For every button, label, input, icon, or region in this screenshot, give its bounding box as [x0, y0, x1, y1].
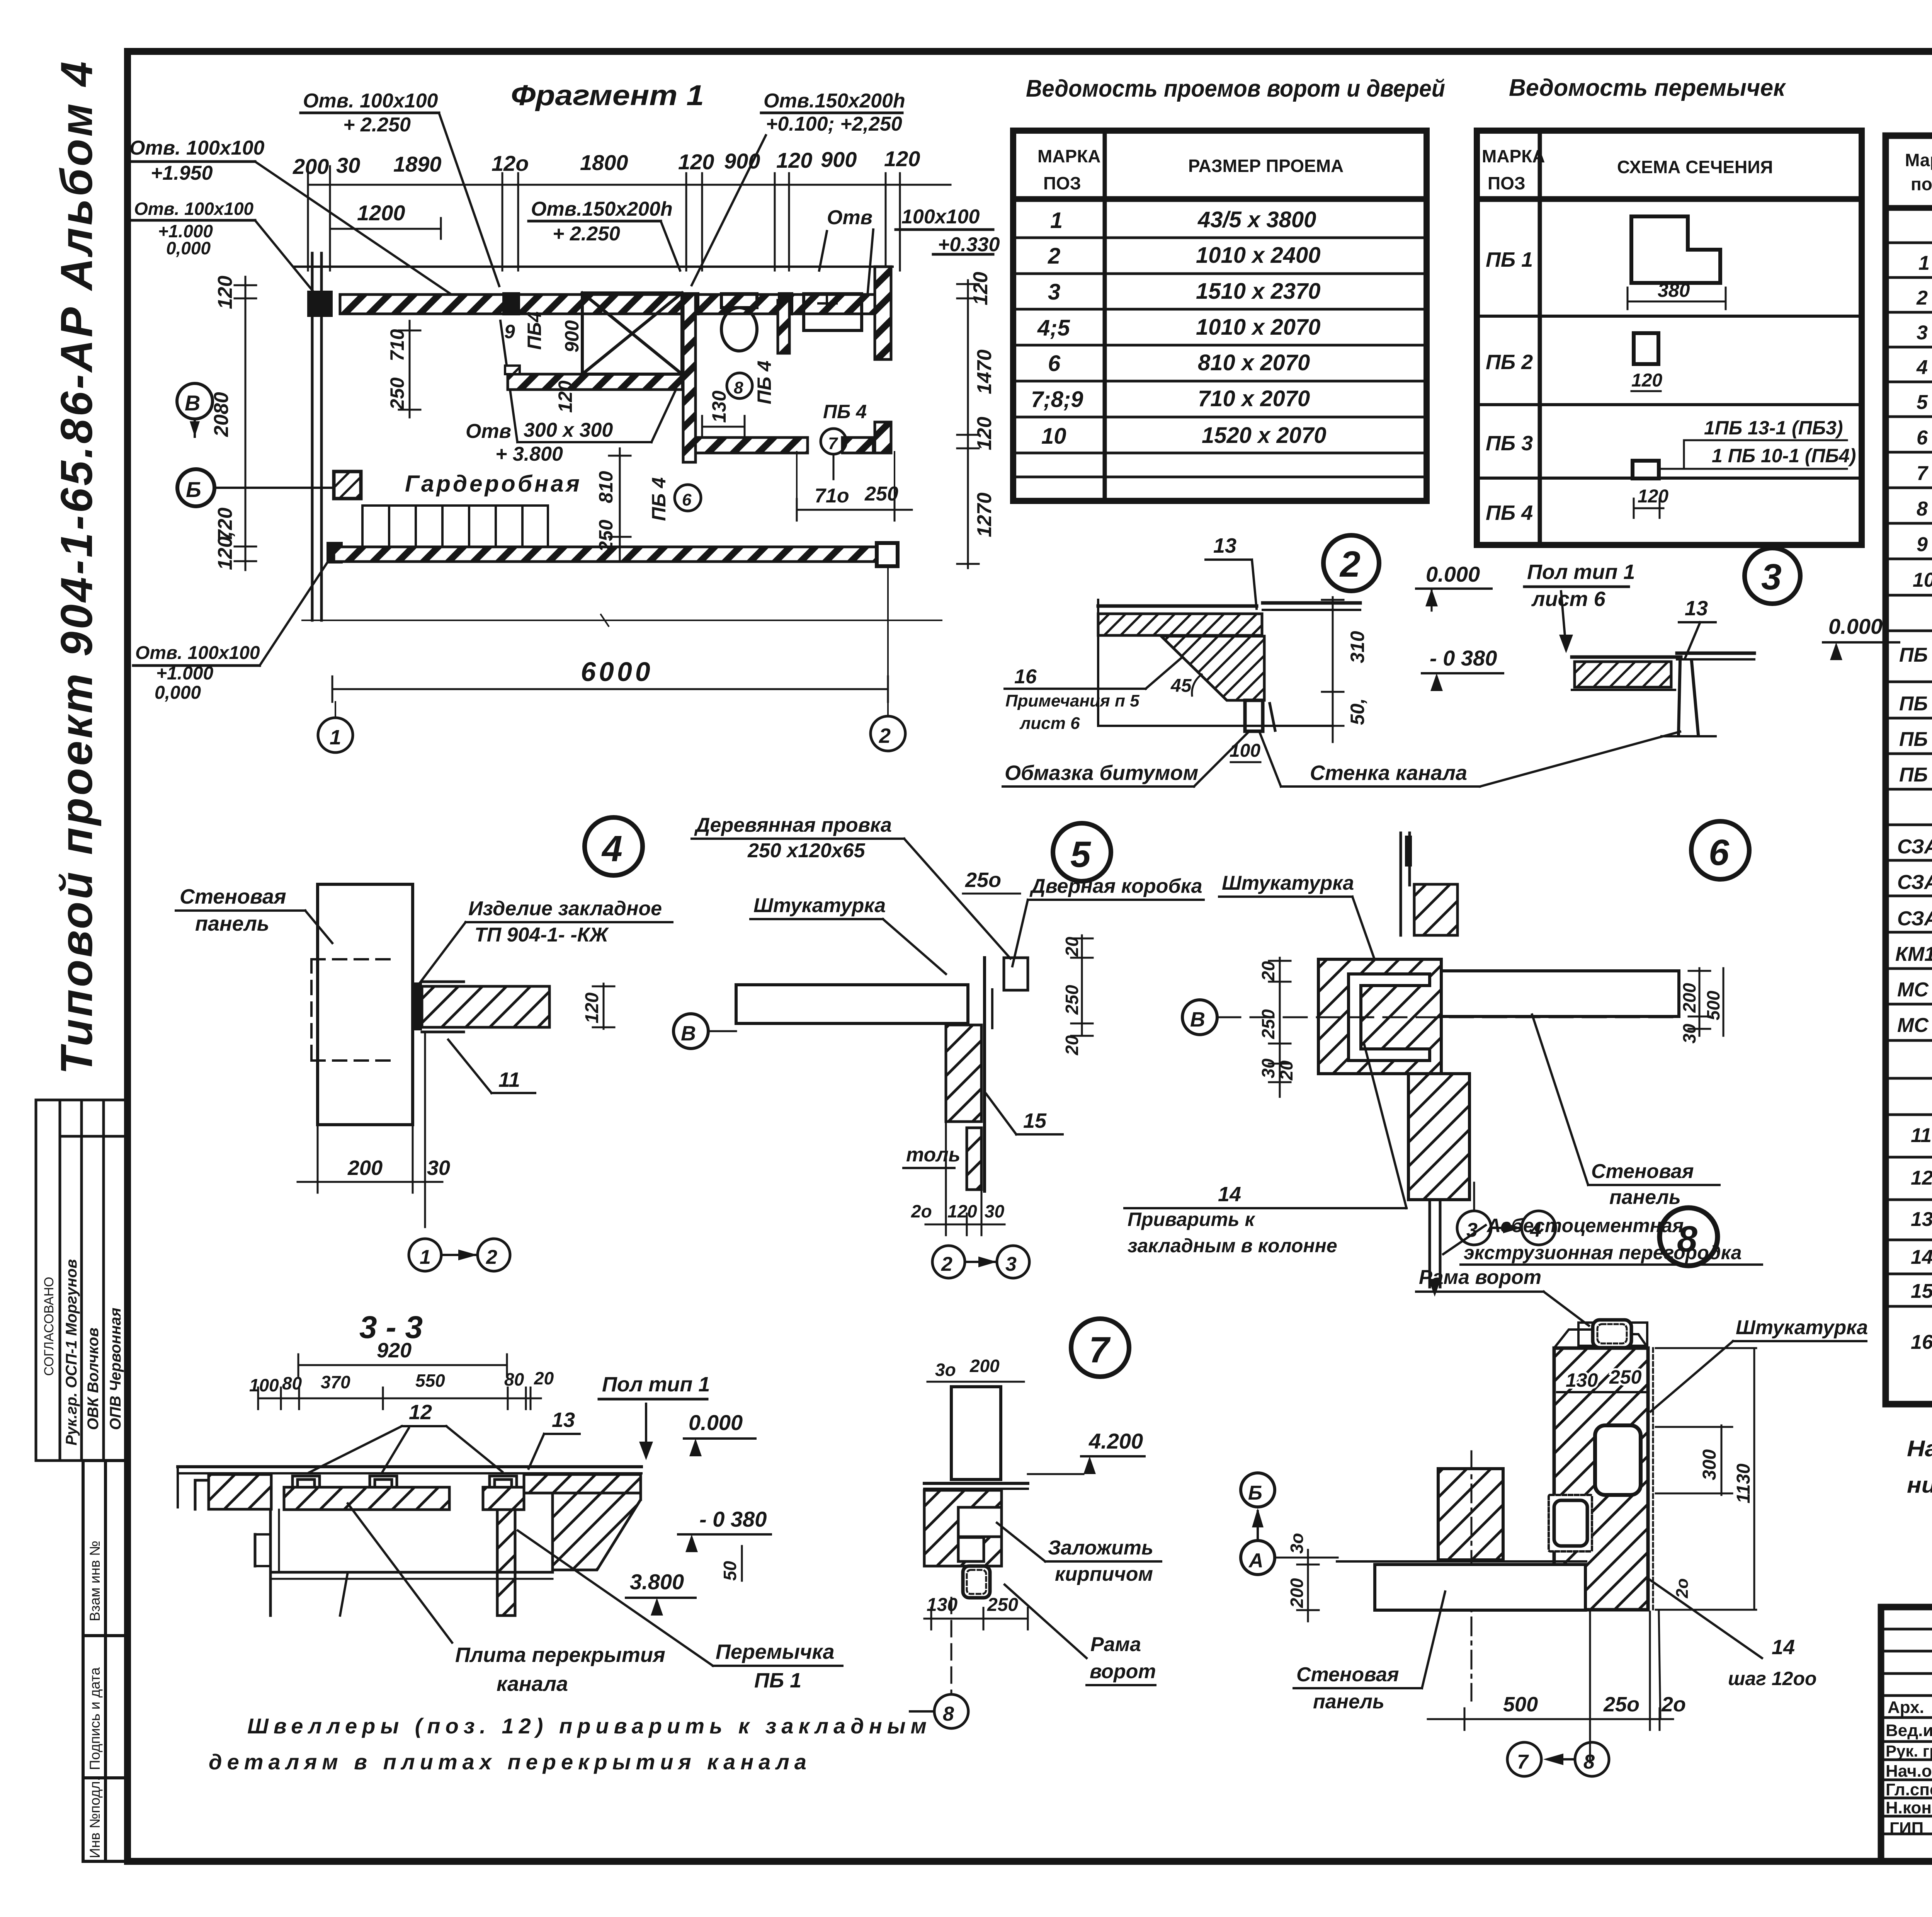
svg-text:20: 20 — [1276, 1060, 1296, 1081]
svg-text:100: 100 — [1230, 741, 1260, 761]
svg-text:Изделие закладное: Изделие закладное — [468, 897, 662, 920]
embedded bar — [414, 982, 422, 1030]
svg-text:43/5 x 3800: 43/5 x 3800 — [1197, 207, 1316, 232]
svg-text:Подпись и дата: Подпись и дата — [87, 1667, 103, 1770]
svg-text:120: 120 — [776, 148, 812, 172]
svg-text:Швеллеры (поз. 12) приварить: Швеллеры (поз. 12) приварить к закладным — [247, 1714, 932, 1738]
svg-text:толь: толь — [906, 1144, 961, 1166]
svg-text:200: 200 — [969, 1356, 1000, 1376]
toilet — [721, 294, 757, 308]
svg-text:1010 x 2400: 1010 x 2400 — [1196, 243, 1321, 268]
svg-text:920: 920 — [377, 1339, 412, 1362]
svg-text:Гл.спец.Кияшко: Гл.спец.Кияшко — [1886, 1780, 1932, 1799]
svg-text:1: 1 — [1918, 252, 1930, 274]
svg-text:6: 6 — [682, 490, 692, 509]
svg-text:1: 1 — [420, 1246, 431, 1268]
svg-text:9: 9 — [1917, 533, 1928, 556]
labels ПБ4 etc — [504, 312, 867, 521]
svg-text:Арх.: Арх. — [1888, 1698, 1924, 1717]
svg-text:130: 130 — [927, 1595, 957, 1615]
svg-text:Отв. 100x100: Отв. 100x100 — [129, 137, 265, 159]
axis 7<-8 — [1507, 1742, 1541, 1776]
svg-text:Инв №подл.: Инв №подл. — [87, 1777, 103, 1858]
top dimension chain — [308, 166, 951, 271]
svg-text:Типовой проект 904-1-65.86-А: Типовой проект 904-1-65.86-АР Альбом 4 — [51, 59, 102, 1074]
svg-text:Дверная коробка: Дверная коробка — [1029, 875, 1202, 897]
svg-text:+1.950: +1.950 — [151, 162, 213, 184]
svg-text:Отв.150x200h: Отв.150x200h — [531, 198, 673, 220]
svg-text:900: 900 — [724, 149, 760, 173]
svg-text:Штукатурка: Штукатурка — [1222, 872, 1354, 894]
left dims — [1269, 958, 1291, 1097]
row lines — [1886, 243, 1932, 1306]
svg-text:50,: 50, — [1347, 698, 1368, 725]
svg-text:Б: Б — [186, 477, 201, 502]
dims right of detail5 — [1071, 935, 1093, 1036]
В axis — [1182, 1000, 1217, 1035]
svg-text:6: 6 — [1709, 832, 1730, 873]
svg-text:ОВК Волчков: ОВК Волчков — [85, 1328, 102, 1430]
svg-text:120: 120 — [582, 993, 602, 1023]
svg-text:Марка,: Марка, — [1905, 150, 1932, 170]
svg-text:2o: 2o — [1661, 1693, 1686, 1716]
svg-text:250: 250 — [386, 377, 408, 410]
svg-text:Стеновая: Стеновая — [1591, 1160, 1694, 1183]
channel (швеллер) white — [1349, 974, 1430, 1061]
svg-text:+ 2.250: + 2.250 — [553, 223, 620, 245]
slab — [1572, 655, 1681, 659]
hatched small column — [1438, 1469, 1503, 1560]
svg-text:8: 8 — [1583, 1751, 1595, 1773]
svg-text:7: 7 — [1089, 1330, 1111, 1371]
svg-text:канала: канала — [497, 1672, 568, 1696]
svg-text:СХЕМА СЕЧЕНИЯ: СХЕМА СЕЧЕНИЯ — [1617, 157, 1773, 177]
svg-text:8: 8 — [1917, 498, 1928, 520]
svg-text:3.800: 3.800 — [630, 1570, 684, 1594]
svg-text:ПБ 1: ПБ 1 — [1899, 644, 1932, 666]
svg-text:МАРКА: МАРКА — [1037, 146, 1101, 166]
right wall upper hatched — [875, 267, 891, 359]
svg-text:В: В — [681, 1022, 696, 1045]
svg-text:ПБ 4: ПБ 4 — [753, 361, 775, 404]
svg-text:30: 30 — [985, 1201, 1005, 1221]
channels (швеллер поз12) — [293, 1476, 517, 1486]
svg-text:- 0 380: - 0 380 — [1430, 646, 1497, 670]
wall panel — [318, 884, 413, 1125]
svg-text:ПБ4: ПБ4 — [524, 312, 545, 350]
slab hatched — [1098, 614, 1262, 635]
svg-text:710: 710 — [386, 329, 408, 361]
leader note Отв.100x100 +1.950 — [129, 137, 265, 184]
svg-text:ПБ 2: ПБ 2 — [1899, 693, 1932, 715]
svg-text:130: 130 — [1566, 1369, 1598, 1391]
svg-text:Н.контр.Толоченко: Н.контр.Толоченко — [1886, 1798, 1932, 1817]
svg-text:16: 16 — [1911, 1331, 1932, 1353]
svg-text:7: 7 — [1917, 462, 1929, 485]
svg-text:Рук. гр.Бескоровайный: Рук. гр.Бескоровайный — [1886, 1742, 1932, 1760]
sink — [804, 294, 862, 330]
svg-text:1ПБ 13-1 (ПБ3): 1ПБ 13-1 (ПБ3) — [1704, 417, 1843, 439]
svg-text:500: 500 — [1703, 991, 1723, 1020]
svg-text:30: 30 — [427, 1156, 450, 1180]
wall nodes (black) — [307, 291, 793, 564]
svg-text:1510 x 2370: 1510 x 2370 — [1196, 279, 1321, 304]
svg-text:лист 6: лист 6 — [1531, 587, 1606, 611]
120 dim — [593, 984, 614, 1029]
leader note Отв.100x100 +2.250 — [303, 90, 438, 136]
svg-text:В: В — [1190, 1008, 1205, 1031]
svg-text:Асбестоцементная: Асбестоцементная — [1486, 1215, 1684, 1236]
svg-text:4: 4 — [1916, 356, 1928, 379]
left vertical dim chain — [235, 277, 256, 570]
axis circles 1 2 — [318, 718, 353, 752]
svg-text:45: 45 — [1170, 676, 1192, 696]
svg-text:0,000: 0,000 — [166, 238, 211, 258]
svg-text:панель: панель — [195, 912, 269, 935]
panel bar right — [1441, 971, 1679, 1016]
svg-text:ворот: ворот — [1090, 1660, 1156, 1683]
signature rows — [1881, 1628, 1932, 1631]
svg-text:Вед.инж.Горская: Вед.инж.Горская — [1886, 1721, 1932, 1740]
left inventory strip — [83, 1461, 128, 1861]
svg-text:Взам инв №: Взам инв № — [87, 1541, 103, 1621]
column below — [1408, 1074, 1469, 1200]
svg-text:120: 120 — [554, 380, 576, 413]
interior vertical wall — [683, 295, 696, 462]
right dims 300 1130 — [1656, 1348, 1756, 1610]
floor lines — [924, 1482, 1028, 1485]
svg-text:низа отверстий: низа отверстий — [1907, 1473, 1932, 1498]
svg-text:ПБ 4: ПБ 4 — [648, 477, 670, 521]
svg-text:13: 13 — [1213, 534, 1236, 557]
svg-text:8: 8 — [734, 378, 743, 397]
svg-text:2: 2 — [1339, 544, 1361, 585]
circled refs 8 7 6 — [727, 373, 752, 398]
svg-text:15: 15 — [1023, 1109, 1047, 1132]
svg-text:200: 200 — [293, 154, 329, 179]
svg-text:На фрагменте 1 даны отметки: На фрагменте 1 даны отметки — [1907, 1436, 1932, 1461]
svg-text:120: 120 — [884, 146, 920, 171]
svg-text:Ведомость перемычек: Ведомость перемычек — [1509, 75, 1786, 101]
svg-text:810: 810 — [595, 471, 617, 503]
1200 dim — [330, 228, 441, 230]
svg-text:поз.: поз. — [1911, 174, 1932, 194]
svg-text:Отв.150x200h: Отв.150x200h — [764, 90, 905, 112]
svg-text:4: 4 — [1530, 1219, 1541, 1241]
svg-text:10: 10 — [1913, 569, 1932, 591]
svg-text:КМ1А: КМ1А — [1895, 943, 1932, 965]
svg-text:ОПВ Червонная: ОПВ Червонная — [107, 1308, 124, 1430]
svg-text:ТП 904-1- -КЖ: ТП 904-1- -КЖ — [474, 924, 609, 946]
svg-text:13: 13 — [1911, 1208, 1932, 1231]
svg-text:Пол тип 1: Пол тип 1 — [1527, 560, 1635, 584]
leader note Отв.150x200h +2.250 mid — [531, 198, 673, 245]
svg-text:1200: 1200 — [357, 201, 405, 225]
svg-text:1 ПБ 10-1 (ПБ4): 1 ПБ 10-1 (ПБ4) — [1712, 445, 1856, 466]
lockers row — [362, 506, 548, 547]
svg-text:120: 120 — [1631, 370, 1662, 391]
floor lines — [1098, 604, 1257, 608]
svg-text:РАЗМЕР ПРОЕМА: РАЗМЕР ПРОЕМА — [1188, 156, 1344, 176]
svg-text:2: 2 — [1048, 243, 1060, 269]
svg-text:20: 20 — [1258, 961, 1278, 981]
extension line 0,000 level — [302, 620, 942, 621]
svg-text:200: 200 — [347, 1156, 383, 1180]
hatched block — [924, 1490, 1002, 1566]
svg-text:14: 14 — [1911, 1246, 1932, 1268]
svg-text:4;5: 4;5 — [1037, 315, 1070, 340]
svg-text:6000: 6000 — [581, 657, 653, 687]
right wedge — [524, 1474, 641, 1493]
wall below — [1679, 662, 1680, 734]
svg-text:панель: панель — [1313, 1691, 1384, 1713]
svg-text:ГИП: ГИП — [1889, 1819, 1923, 1838]
svg-text:120: 120 — [969, 272, 992, 305]
thin wall between WC cells — [778, 300, 789, 353]
channel wall — [1245, 700, 1263, 731]
svg-text:Рама ворот: Рама ворот — [1419, 1266, 1541, 1289]
svg-text:15: 15 — [1911, 1280, 1932, 1302]
leader note Отв.100x100 +1.000 0,000 lower-left — [135, 643, 260, 703]
svg-text:16: 16 — [1014, 666, 1037, 688]
svg-text:0.000: 0.000 — [1828, 614, 1883, 638]
svg-text:11: 11 — [1911, 1124, 1932, 1147]
ventilation shaft with X — [582, 293, 682, 374]
WC horizontal wall — [696, 438, 808, 453]
svg-text:12: 12 — [409, 1401, 432, 1424]
svg-text:120: 120 — [973, 417, 996, 450]
white channel inside — [1595, 1425, 1641, 1495]
svg-text:20: 20 — [1062, 1035, 1082, 1056]
top exterior line above wall — [294, 266, 893, 268]
svg-text:2: 2 — [879, 724, 891, 747]
svg-text:120,: 120, — [214, 531, 236, 570]
svg-text:7;8;9: 7;8;9 — [1031, 387, 1083, 412]
svg-text:Ведомость проемов ворот и д: Ведомость проемов ворот и дверей — [1026, 75, 1445, 102]
svg-text:300 x 300: 300 x 300 — [524, 419, 613, 441]
svg-text:6: 6 — [1048, 351, 1061, 376]
svg-text:0.000: 0.000 — [689, 1410, 743, 1435]
top wall hatched — [340, 295, 877, 314]
svg-text:80: 80 — [504, 1369, 524, 1389]
svg-text:ПБ 4: ПБ 4 — [823, 401, 867, 422]
rows 1..10 — [1913, 251, 1932, 591]
svg-text:0.000: 0.000 — [1426, 562, 1480, 586]
svg-text:30: 30 — [1679, 1023, 1699, 1044]
svg-text:+0.100; +2,250: +0.100; +2,250 — [766, 113, 902, 135]
svg-text:Заложить: Заложить — [1048, 1537, 1153, 1559]
svg-text:900: 900 — [821, 147, 857, 172]
svg-text:25o: 25o — [1603, 1693, 1639, 1716]
svg-text:100: 100 — [249, 1375, 279, 1395]
svg-text:кирпичом: кирпичом — [1055, 1563, 1153, 1585]
interior horizontal wall under shaft — [508, 374, 682, 390]
svg-text:1520 x 2070: 1520 x 2070 — [1202, 423, 1327, 448]
bottom line — [1098, 725, 1333, 727]
svg-text:экструзионная перегородка: экструзионная перегородка — [1464, 1242, 1742, 1263]
big embed block — [1318, 959, 1441, 1074]
svg-text:деталям в плитах перекрытия: деталям в плитах перекрытия канала — [209, 1750, 811, 1774]
svg-text:Стенка канала: Стенка канала — [1310, 761, 1467, 785]
door frame parts — [1004, 958, 1028, 990]
svg-text:1: 1 — [330, 726, 341, 749]
column above — [1400, 833, 1402, 935]
left hatched block — [209, 1474, 271, 1509]
svg-text:ПБ 4: ПБ 4 — [1899, 764, 1932, 786]
axis circle В — [177, 383, 213, 419]
right vertical dim chain — [957, 280, 979, 568]
svg-text:550: 550 — [415, 1371, 445, 1391]
svg-text:Обмазка битумом: Обмазка битумом — [1005, 761, 1198, 785]
svg-text:310: 310 — [1347, 631, 1368, 663]
lower gate frame — [1549, 1495, 1592, 1551]
svg-text:ПОЗ: ПОЗ — [1043, 173, 1081, 193]
left approval table (СОГЛАСОВАНО) — [36, 1100, 128, 1461]
svg-text:Отв. 100x100: Отв. 100x100 — [135, 643, 260, 663]
svg-text:120: 120 — [678, 150, 714, 174]
svg-text:130: 130 — [708, 390, 730, 423]
signature texts — [1886, 1698, 1932, 1838]
svg-text:ПБ 2: ПБ 2 — [1486, 351, 1533, 374]
axis 1->2 — [409, 1239, 441, 1271]
panel above — [951, 1387, 1001, 1479]
svg-text:ПБ 3: ПБ 3 — [1899, 728, 1932, 751]
vertical channel wall — [497, 1510, 515, 1616]
svg-text:4: 4 — [601, 828, 622, 869]
svg-text:120: 120 — [214, 276, 236, 309]
svg-text:Отв. 100x100: Отв. 100x100 — [134, 199, 254, 219]
svg-text:250: 250 — [1062, 985, 1082, 1015]
svg-text:СЗАЕ: СЗАЕ — [1897, 871, 1932, 894]
svg-text:Стеновая: Стеновая — [180, 885, 286, 908]
svg-text:8: 8 — [943, 1703, 954, 1725]
svg-text:30: 30 — [336, 153, 360, 177]
rows 11..16 — [1911, 1115, 1932, 1398]
710 250 dim right — [797, 509, 912, 511]
svg-text:7: 7 — [828, 434, 838, 453]
leader note Отв.150x200h +0.100 — [764, 90, 905, 135]
svg-text:1800: 1800 — [580, 150, 628, 175]
В axis circle — [673, 1014, 708, 1049]
svg-text:1270: 1270 — [973, 492, 996, 537]
interior small dims — [386, 320, 730, 552]
svg-text:0,000: 0,000 — [155, 683, 201, 703]
svg-text:1130: 1130 — [1733, 1463, 1754, 1503]
svg-text:Фрагмент 1: Фрагмент 1 — [511, 79, 704, 111]
svg-text:СЗАД: СЗАД — [1897, 836, 1932, 858]
bottom slab lines — [270, 1571, 553, 1574]
svg-text:ПОЗ: ПОЗ — [1488, 173, 1526, 193]
wedge — [1161, 636, 1264, 700]
svg-text:13: 13 — [1685, 597, 1708, 620]
axis 2->3 — [932, 1246, 965, 1278]
svg-text:МС 5: МС 5 — [1897, 1014, 1932, 1037]
svg-text:ПБ 3: ПБ 3 — [1486, 432, 1533, 455]
leader note Отв 100x100 +0.330 — [827, 206, 1000, 256]
svg-text:СЗАЖ: СЗАЖ — [1897, 907, 1932, 930]
bottom 6000 dim — [332, 688, 888, 690]
svg-text:71o: 71o — [815, 485, 849, 507]
svg-text:3: 3 — [1048, 279, 1060, 305]
svg-text:300: 300 — [1699, 1449, 1720, 1480]
svg-text:2: 2 — [486, 1246, 497, 1268]
svg-text:3: 3 — [1761, 557, 1782, 598]
svg-text:20: 20 — [534, 1368, 554, 1388]
svg-text:+0.330: +0.330 — [938, 233, 1000, 256]
svg-text:250: 250 — [864, 483, 898, 505]
svg-text:Рама: Рама — [1090, 1633, 1141, 1656]
svg-text:Рук.гр. ОСП-1 Моргунов: Рук.гр. ОСП-1 Моргунов — [63, 1259, 80, 1445]
svg-text:50: 50 — [720, 1561, 740, 1581]
ПБ2 section shape — [1634, 333, 1658, 364]
svg-text:11: 11 — [498, 1068, 520, 1091]
svg-text:380: 380 — [1658, 279, 1690, 301]
bottom wall hatched — [334, 547, 883, 562]
svg-text:20: 20 — [1062, 936, 1082, 957]
vertical dim 310/50 — [1322, 597, 1344, 742]
svg-text:Отв: Отв — [466, 420, 511, 443]
leader note Отв 300x300 +3.800 — [466, 419, 613, 465]
svg-text:Отв. 100x100: Отв. 100x100 — [303, 90, 438, 112]
svg-text:30: 30 — [1258, 1058, 1278, 1078]
svg-text:панель: панель — [1609, 1186, 1681, 1209]
svg-text:Стеновая: Стеновая — [1296, 1663, 1399, 1686]
svg-text:250: 250 — [1609, 1366, 1642, 1388]
svg-text:500: 500 — [1503, 1693, 1538, 1716]
svg-text:+ 3.800: + 3.800 — [495, 443, 563, 465]
svg-text:250: 250 — [1258, 1009, 1278, 1039]
floor slab — [1375, 1565, 1585, 1610]
svg-text:Примечания п 5: Примечания п 5 — [1005, 691, 1139, 710]
svg-text:12o: 12o — [492, 151, 529, 175]
svg-text:закладным в колонне: закладным в колонне — [1128, 1235, 1337, 1256]
svg-text:5: 5 — [1070, 834, 1091, 875]
svg-text:13: 13 — [552, 1408, 575, 1432]
ПБ3/ПБ4 section shape — [1633, 461, 1659, 478]
svg-text:14: 14 — [1218, 1183, 1241, 1206]
svg-text:3o: 3o — [1287, 1533, 1307, 1554]
svg-text:Пол тип 1: Пол тип 1 — [602, 1373, 710, 1396]
right wall lower piece — [875, 422, 891, 453]
svg-text:200: 200 — [1287, 1578, 1307, 1608]
svg-text:120: 120 — [947, 1201, 977, 1221]
svg-text:ПБ 1: ПБ 1 — [1486, 248, 1533, 271]
svg-text:1010 x 2070: 1010 x 2070 — [1196, 315, 1321, 340]
bottom dims 500 250 20 — [1428, 1612, 1673, 1762]
svg-text:900: 900 — [561, 320, 583, 352]
ПБ1 section shape — [1631, 216, 1720, 283]
svg-text:Гардеробная: Гардеробная — [405, 471, 582, 497]
200 30 dims — [298, 1032, 442, 1227]
svg-text:8: 8 — [1677, 1219, 1697, 1260]
svg-text:200: 200 — [1679, 983, 1699, 1013]
sub dims — [249, 1368, 554, 1395]
svg-text:10: 10 — [1041, 424, 1066, 449]
svg-text:2: 2 — [941, 1253, 952, 1275]
svg-text:2: 2 — [1916, 287, 1928, 309]
svg-text:СОГЛАСОВАНО: СОГЛАСОВАНО — [42, 1277, 56, 1376]
svg-text:А: А — [1248, 1549, 1264, 1572]
svg-text:Отв: Отв — [827, 206, 872, 229]
channel slab — [284, 1487, 449, 1510]
svg-text:250 x120x65: 250 x120x65 — [747, 839, 866, 862]
axis 3->4 — [1457, 1211, 1491, 1245]
svg-text:370: 370 — [321, 1372, 350, 1392]
svg-text:МАРКА: МАРКА — [1482, 146, 1545, 166]
svg-text:Приварить к: Приварить к — [1128, 1209, 1256, 1230]
svg-text:1: 1 — [1050, 208, 1063, 233]
svg-text:лист 6: лист 6 — [1019, 714, 1080, 733]
